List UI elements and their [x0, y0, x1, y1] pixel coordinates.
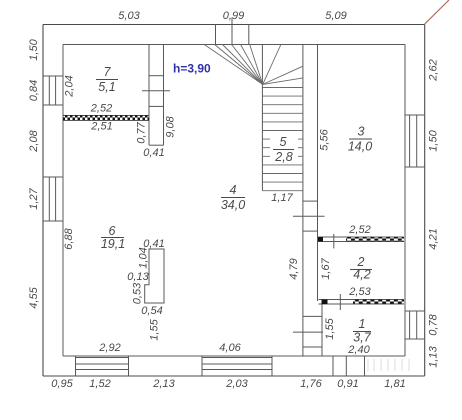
svg-text:2,03: 2,03 [225, 378, 248, 390]
outer wall top [43, 24, 425, 26]
svg-text:4,2: 4,2 [353, 268, 370, 282]
stair treads [262, 88, 303, 191]
room 6 label [101, 224, 125, 251]
room 1 label [353, 317, 372, 345]
svg-text:1,67: 1,67 [320, 257, 332, 279]
inner wall face bottom [63, 355, 405, 357]
svg-text:1,76: 1,76 [300, 378, 322, 390]
svg-text:0,41: 0,41 [143, 147, 164, 159]
room 7 label [96, 65, 118, 94]
svg-text:1: 1 [359, 317, 366, 331]
svg-text:2,92: 2,92 [98, 342, 120, 354]
svg-text:9,08: 9,08 [165, 115, 177, 137]
svg-text:5,56: 5,56 [319, 128, 331, 150]
svg-text:0,78: 0,78 [428, 313, 440, 335]
outer wall bottom [43, 375, 425, 377]
room 3 label [348, 125, 372, 154]
door D3 in wall B [293, 201, 325, 231]
svg-text:3: 3 [358, 125, 365, 139]
svg-text:2,13: 2,13 [152, 378, 175, 390]
svg-text:4,21: 4,21 [428, 228, 440, 249]
red markup line [425, 0, 449, 24]
inner wall face left [62, 45, 64, 357]
interior wall B (hall - rooms 3/2/1) [303, 45, 322, 357]
inner wall face right [404, 45, 406, 357]
svg-text:6,88: 6,88 [63, 227, 75, 249]
inner wall face top [63, 44, 405, 46]
svg-text:1,50: 1,50 [428, 129, 440, 151]
svg-text:1,55: 1,55 [149, 318, 161, 340]
svg-text:5,03: 5,03 [118, 10, 140, 22]
window W2 left wall [43, 177, 63, 221]
window WB bottom wall [202, 356, 272, 376]
svg-text:0,54: 0,54 [141, 305, 162, 317]
stair flight edge [261, 45, 263, 191]
svg-text:2,40: 2,40 [347, 344, 370, 356]
svg-text:5,1: 5,1 [98, 80, 115, 94]
svg-text:5: 5 [280, 135, 287, 149]
svg-text:0,13: 0,13 [127, 271, 149, 283]
svg-text:2,53: 2,53 [348, 286, 371, 298]
stair shaft in top wall [216, 18, 249, 45]
svg-text:7: 7 [104, 65, 112, 79]
svg-text:0,95: 0,95 [51, 378, 73, 390]
svg-text:34,0: 34,0 [221, 198, 245, 212]
window W4 right wall [405, 311, 425, 339]
svg-text:2,52: 2,52 [348, 224, 370, 236]
svg-text:1,81: 1,81 [384, 378, 405, 390]
checkered partition bar1 (rooms 7/6) [63, 115, 149, 120]
svg-text:0,84: 0,84 [28, 80, 40, 101]
svg-text:1,27: 1,27 [28, 187, 40, 209]
svg-text:4,79: 4,79 [288, 258, 300, 279]
svg-text:2,08: 2,08 [28, 129, 40, 152]
room 5 label [270, 134, 298, 164]
room 4 label [221, 183, 245, 212]
window WA bottom wall [76, 356, 129, 376]
svg-text:4,06: 4,06 [219, 342, 241, 354]
checkered partition bar2 (room 2 top) [318, 234, 404, 248]
entry door bottom wall [333, 356, 365, 376]
flue column [145, 249, 164, 303]
svg-text:2,8: 2,8 [274, 150, 292, 164]
svg-text:h=3,90: h=3,90 [173, 62, 211, 76]
svg-text:1,13: 1,13 [428, 345, 440, 367]
door D1 in wall B [293, 316, 323, 347]
svg-text:3,7: 3,7 [353, 331, 371, 345]
svg-text:1,50: 1,50 [28, 38, 40, 60]
outer wall right [424, 25, 426, 377]
svg-text:0,77: 0,77 [136, 121, 148, 143]
checkered partition bar3 (rooms 2/1) [319, 294, 405, 310]
window W3 right wall [405, 115, 425, 167]
svg-text:5,09: 5,09 [325, 10, 346, 22]
outer wall left [42, 25, 44, 377]
svg-text:19,1: 19,1 [101, 237, 125, 251]
door D7 in wall A [142, 76, 170, 107]
ghost hatch marks [368, 359, 409, 371]
svg-text:14,0: 14,0 [348, 140, 372, 154]
room 2 label [350, 255, 372, 282]
svg-text:0,53: 0,53 [132, 282, 144, 304]
svg-text:2,04: 2,04 [64, 75, 76, 97]
svg-text:6: 6 [109, 224, 116, 238]
svg-text:1,17: 1,17 [271, 192, 293, 204]
svg-text:1,04: 1,04 [138, 247, 150, 268]
svg-text:4: 4 [230, 183, 237, 197]
svg-text:1,52: 1,52 [89, 378, 110, 390]
svg-text:0,99: 0,99 [223, 10, 244, 22]
stair winder fan [204, 45, 303, 85]
svg-text:0,91: 0,91 [337, 378, 358, 390]
interior wall A (rooms 7/6 - hall) [149, 45, 164, 146]
svg-text:4,55: 4,55 [28, 286, 40, 308]
svg-text:2,62: 2,62 [428, 59, 440, 81]
svg-text:1,55: 1,55 [324, 317, 336, 339]
svg-text:2,51: 2,51 [90, 121, 112, 133]
svg-text:2,52: 2,52 [90, 103, 112, 115]
window W1 left wall [43, 76, 63, 105]
